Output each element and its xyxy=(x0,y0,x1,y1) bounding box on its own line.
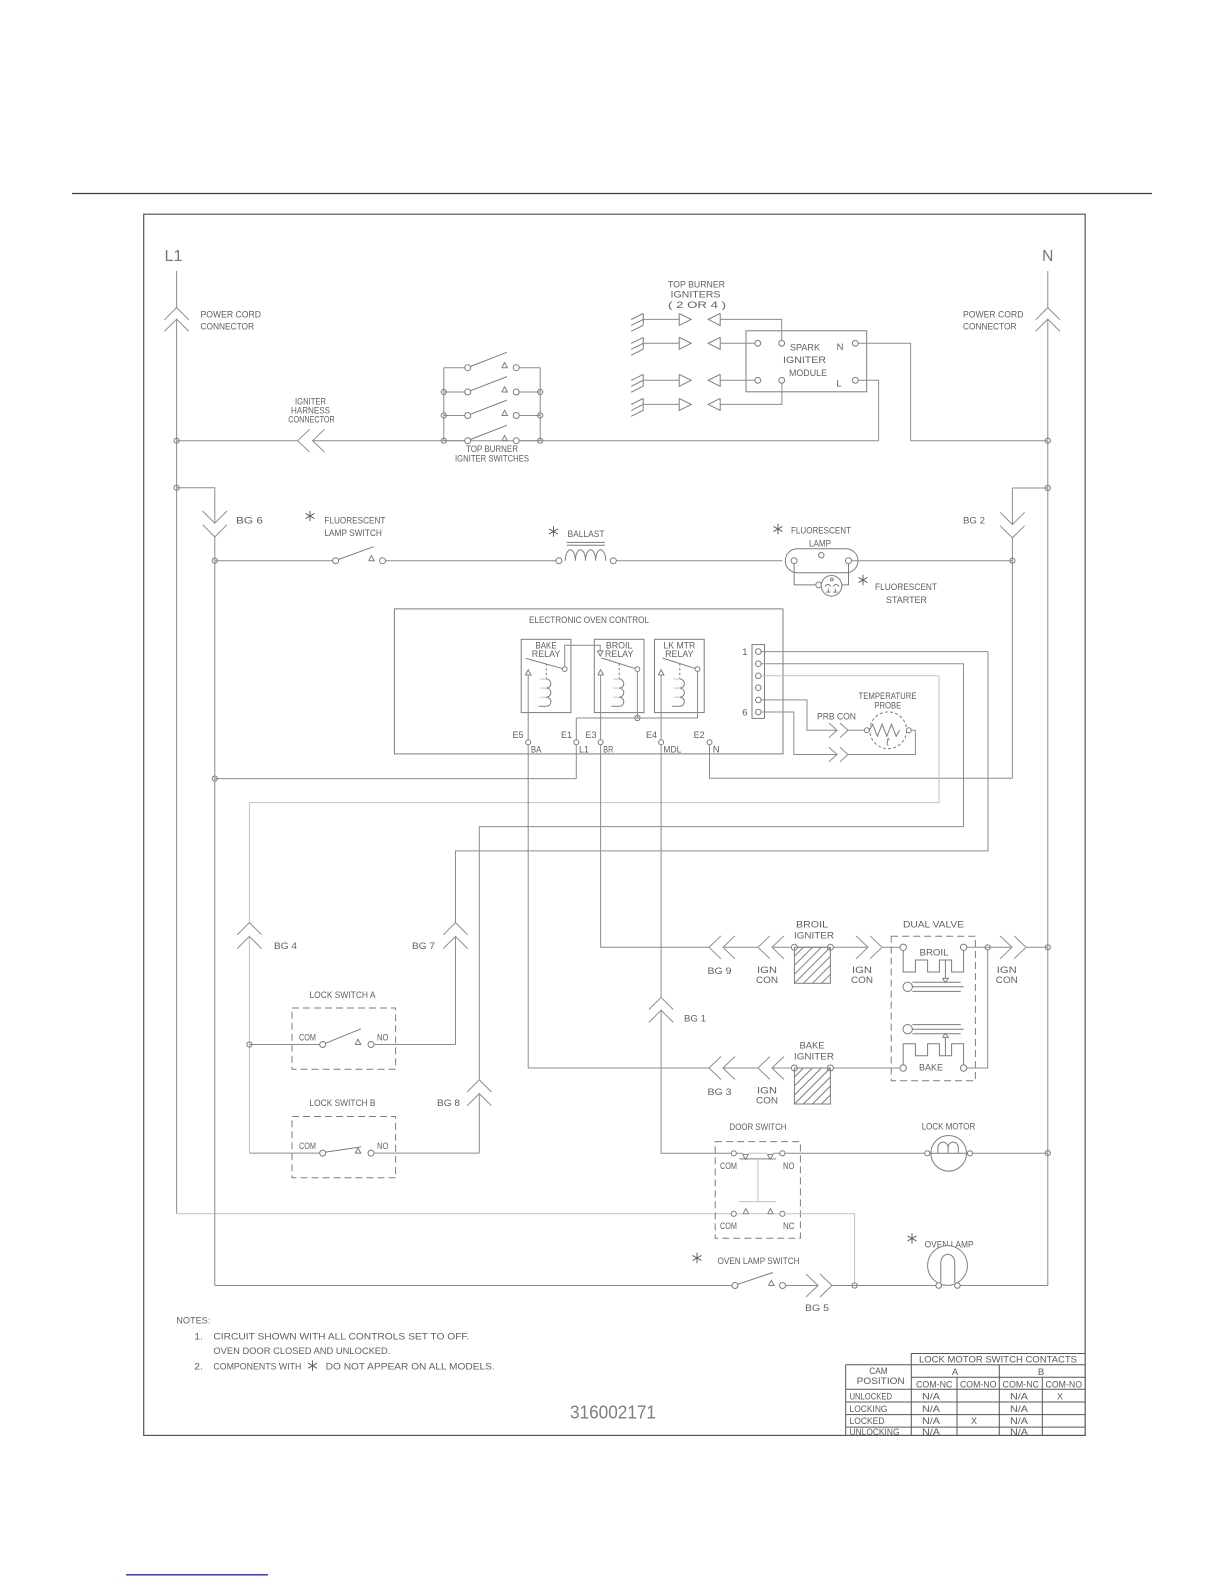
svg-text:OVEN DOOR CLOSED AND UNLOCKED.: OVEN DOOR CLOSED AND UNLOCKED. xyxy=(213,1346,390,1357)
svg-text:X: X xyxy=(971,1416,977,1426)
svg-text:FLUORESCENT: FLUORESCENT xyxy=(791,526,851,537)
svg-text:N/A: N/A xyxy=(922,1391,940,1401)
svg-text:MDL: MDL xyxy=(663,745,681,756)
svg-text:LOCK MOTOR SWITCH CONTACTS: LOCK MOTOR SWITCH CONTACTS xyxy=(919,1355,1077,1366)
svg-text:( 2 OR 4 ): ( 2 OR 4 ) xyxy=(668,300,726,311)
svg-text:BG 8: BG 8 xyxy=(437,1098,460,1109)
svg-text:POSITION: POSITION xyxy=(857,1376,905,1387)
svg-text:1.: 1. xyxy=(194,1332,203,1343)
svg-text:POWER CORD: POWER CORD xyxy=(963,310,1024,321)
svg-text:COM: COM xyxy=(299,1032,316,1043)
svg-text:N: N xyxy=(837,342,844,353)
svg-text:BG 4: BG 4 xyxy=(274,941,297,952)
svg-text:X: X xyxy=(1057,1391,1063,1401)
svg-text:B: B xyxy=(1038,1367,1044,1378)
svg-text:COM: COM xyxy=(720,1161,737,1172)
svg-text:IGNITER: IGNITER xyxy=(783,355,826,366)
svg-text:COM-NO: COM-NO xyxy=(960,1379,997,1389)
svg-text:BG 9: BG 9 xyxy=(708,966,732,977)
svg-text:LOCKING: LOCKING xyxy=(850,1404,888,1414)
svg-text:STARTER: STARTER xyxy=(886,595,927,606)
svg-text:N/A: N/A xyxy=(922,1427,940,1437)
svg-text:N/A: N/A xyxy=(1010,1427,1028,1437)
svg-text:2.: 2. xyxy=(194,1361,203,1372)
svg-text:IGNITER: IGNITER xyxy=(794,1052,834,1063)
svg-text:DUAL VALVE: DUAL VALVE xyxy=(903,920,964,931)
svg-text:CON: CON xyxy=(851,975,873,986)
svg-text:FLUORESCENT: FLUORESCENT xyxy=(324,516,385,527)
svg-text:1: 1 xyxy=(742,647,747,658)
svg-text:LAMP: LAMP xyxy=(809,538,831,549)
svg-text:6: 6 xyxy=(742,708,747,719)
svg-text:CIRCUIT SHOWN WITH ALL CONTROL: CIRCUIT SHOWN WITH ALL CONTROLS SET TO O… xyxy=(213,1332,469,1343)
svg-text:UNLOCKING: UNLOCKING xyxy=(850,1427,900,1437)
svg-text:RELAY: RELAY xyxy=(665,649,694,660)
svg-text:LOCK SWITCH B: LOCK SWITCH B xyxy=(310,1098,376,1109)
svg-text:L: L xyxy=(836,379,841,390)
svg-text:BG 5: BG 5 xyxy=(805,1303,829,1314)
svg-text:DOOR SWITCH: DOOR SWITCH xyxy=(730,1122,787,1133)
svg-text:COM-NC: COM-NC xyxy=(916,1379,953,1389)
svg-text:PROBE: PROBE xyxy=(874,701,901,712)
svg-text:BG 6: BG 6 xyxy=(236,516,263,527)
svg-text:N/A: N/A xyxy=(922,1404,940,1414)
svg-text:N/A: N/A xyxy=(922,1416,940,1426)
svg-text:CONNECTOR: CONNECTOR xyxy=(201,322,255,333)
svg-text:N/A: N/A xyxy=(1010,1416,1028,1426)
svg-text:316002171: 316002171 xyxy=(570,1402,656,1423)
svg-text:BROIL: BROIL xyxy=(796,920,828,931)
svg-text:BAKE: BAKE xyxy=(800,1041,825,1052)
svg-text:BAKE: BAKE xyxy=(919,1063,943,1074)
svg-text:COM-NC: COM-NC xyxy=(1003,1379,1040,1389)
svg-text:UNLOCKED: UNLOCKED xyxy=(850,1391,893,1401)
svg-text:A: A xyxy=(952,1367,959,1378)
svg-text:IGNITER SWITCHES: IGNITER SWITCHES xyxy=(455,453,529,464)
svg-text:LOCK MOTOR: LOCK MOTOR xyxy=(922,1121,976,1132)
svg-text:NO: NO xyxy=(783,1161,795,1172)
svg-text:RELAY: RELAY xyxy=(605,649,634,660)
svg-text:N: N xyxy=(713,745,720,756)
svg-text:DO NOT APPEAR ON ALL MODELS.: DO NOT APPEAR ON ALL MODELS. xyxy=(326,1361,495,1372)
svg-text:BG 2: BG 2 xyxy=(963,516,985,527)
svg-text:LOCK SWITCH A: LOCK SWITCH A xyxy=(310,990,377,1001)
svg-text:NO: NO xyxy=(377,1032,389,1043)
svg-text:BG 1: BG 1 xyxy=(684,1014,706,1025)
svg-text:LOCKED: LOCKED xyxy=(850,1416,885,1426)
svg-text:BROIL: BROIL xyxy=(920,948,949,959)
svg-text:POWER CORD: POWER CORD xyxy=(201,310,262,321)
svg-text:E3: E3 xyxy=(586,730,597,741)
svg-text:IGNITER: IGNITER xyxy=(794,931,834,942)
svg-text:BR: BR xyxy=(603,745,613,756)
svg-text:MODULE: MODULE xyxy=(789,368,827,379)
svg-text:NC: NC xyxy=(783,1221,795,1232)
svg-text:L1: L1 xyxy=(165,248,183,265)
svg-text:COM: COM xyxy=(299,1141,316,1152)
svg-text:ELECTRONIC OVEN CONTROL: ELECTRONIC OVEN CONTROL xyxy=(529,615,649,626)
svg-text:CON: CON xyxy=(756,1096,778,1107)
svg-text:CONNECTOR: CONNECTOR xyxy=(963,322,1017,333)
svg-text:OVEN LAMP SWITCH: OVEN LAMP SWITCH xyxy=(718,1256,800,1267)
svg-text:BG 3: BG 3 xyxy=(708,1087,732,1098)
svg-text:N: N xyxy=(1042,248,1053,265)
svg-text:IGNITERS: IGNITERS xyxy=(671,290,721,301)
svg-text:L1: L1 xyxy=(579,745,589,756)
svg-text:E1: E1 xyxy=(561,730,572,741)
svg-text:E2: E2 xyxy=(694,730,705,741)
svg-text:BG 7: BG 7 xyxy=(412,941,435,952)
svg-text:E4: E4 xyxy=(646,730,657,741)
svg-text:COM-NO: COM-NO xyxy=(1046,1379,1083,1389)
svg-text:COM: COM xyxy=(720,1221,737,1232)
svg-text:CON: CON xyxy=(996,975,1018,986)
svg-text:FLUORESCENT: FLUORESCENT xyxy=(875,582,937,593)
svg-text:COMPONENTS WITH: COMPONENTS WITH xyxy=(213,1361,301,1372)
svg-text:E5: E5 xyxy=(513,730,524,741)
svg-text:SPARK: SPARK xyxy=(790,343,821,354)
svg-text:NOTES:: NOTES: xyxy=(176,1316,210,1327)
svg-text:BALLAST: BALLAST xyxy=(568,529,605,540)
svg-text:LAMP SWITCH: LAMP SWITCH xyxy=(324,528,382,539)
svg-text:N/A: N/A xyxy=(1010,1391,1028,1401)
svg-text:N/A: N/A xyxy=(1010,1404,1028,1414)
svg-text:PRB CON: PRB CON xyxy=(817,712,856,723)
svg-text:NO: NO xyxy=(377,1141,389,1152)
svg-text:RELAY: RELAY xyxy=(532,649,561,660)
svg-text:BA: BA xyxy=(531,745,542,756)
svg-text:CONNECTOR: CONNECTOR xyxy=(288,414,335,425)
svg-text:CON: CON xyxy=(756,975,778,986)
